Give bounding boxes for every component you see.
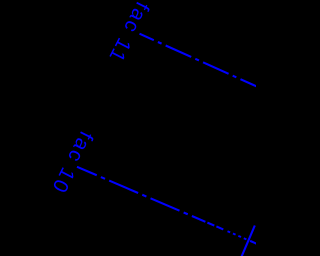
short dashes of fac 10 centerline [207, 223, 224, 230]
facet centerline fac 11 [140, 34, 258, 87]
dotted tail of fac 10 centerline [228, 231, 248, 240]
dash of fac 10 centerline right of junction [250, 241, 257, 244]
facet centerline fac 10 [77, 167, 205, 222]
perpendicular facet edge line [242, 226, 255, 256]
